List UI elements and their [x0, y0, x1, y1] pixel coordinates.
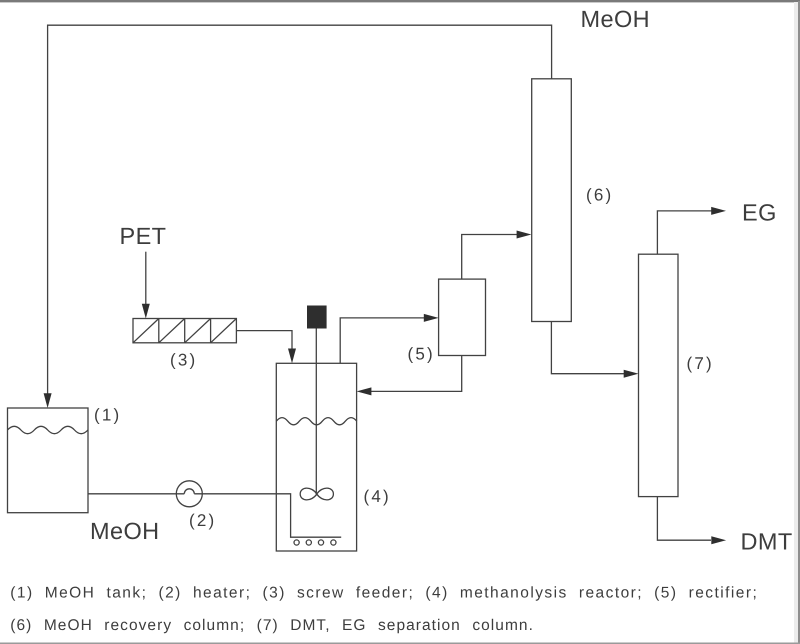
reactor R4 vessel — [276, 363, 356, 551]
svg-text:(6): (6) — [586, 185, 613, 204]
svg-text:(7): (7) — [687, 354, 714, 373]
screw feeder F3 flight 3 — [185, 319, 211, 343]
svg-text:MeOH: MeOH — [581, 6, 651, 32]
wire reactor vapor to rectifier — [340, 318, 424, 363]
arrowhead feeder into reactor top — [288, 349, 296, 364]
wire rectifier top to column 6 — [462, 235, 517, 280]
screw feeder F3 body — [133, 319, 236, 343]
wire column 7 top to EG outlet — [657, 211, 713, 254]
svg-text:PET: PET — [120, 223, 167, 249]
screw feeder F3 flight 1 — [133, 319, 159, 343]
svg-text:(1) MeOH tank; (2) heater; (3): (1) MeOH tank; (2) heater; (3) screw fee… — [10, 585, 758, 602]
heater C2 circle — [176, 481, 202, 507]
svg-text:(2): (2) — [189, 511, 216, 530]
wire column 6 bottom to column 7 — [551, 322, 624, 374]
wire PET feed down to screw feeder — [145, 252, 147, 304]
wire tank outlet through heater to reactor sparger — [88, 493, 184, 495]
wire column 7 bottom to DMT outlet — [657, 497, 711, 541]
svg-text:(5): (5) — [408, 345, 435, 364]
arrowhead return into reactor — [357, 387, 372, 395]
svg-text:EG: EG — [742, 200, 777, 226]
reactor R4 bubble 4 — [331, 540, 336, 545]
arrowhead into column 6 — [517, 231, 532, 239]
arrowhead DMT outlet — [711, 536, 726, 544]
screw feeder F3 flight 4 — [211, 319, 237, 343]
svg-text:(6) MeOH recovery column; (7): (6) MeOH recovery column; (7) DMT, EG se… — [10, 617, 534, 634]
column C7 body — [639, 254, 679, 496]
screw feeder F3 divider 2 — [184, 319, 186, 343]
reactor R4 motor box — [307, 306, 327, 329]
svg-text:MeOH: MeOH — [90, 518, 160, 544]
page top border — [0, 0, 800, 2]
wire screw feeder outlet to reactor top — [236, 331, 292, 349]
reactor R4 bubble 1 — [294, 540, 299, 545]
svg-text:(3): (3) — [170, 351, 197, 370]
wire rectifier bottom return to reactor — [371, 356, 462, 392]
svg-text:(4): (4) — [364, 487, 391, 506]
tank T1 liquid wave — [8, 426, 88, 433]
svg-text:(1): (1) — [94, 406, 121, 425]
arrowhead PET into feeder — [142, 304, 150, 319]
arrowhead into column 7 — [624, 370, 639, 378]
screw feeder F3 divider 3 — [210, 319, 212, 343]
screw feeder F3 divider 1 — [158, 319, 160, 343]
tank T1 MeOH tank — [8, 408, 89, 513]
reactor R4 liquid wave — [276, 418, 357, 425]
page bottom border — [0, 643, 800, 644]
column C6 body — [532, 79, 572, 322]
reactor R4 bubble 2 — [306, 540, 311, 545]
page right border — [794, 2, 798, 644]
svg-text:DMT: DMT — [741, 529, 793, 555]
rectifier R5 body — [439, 279, 486, 355]
wire MeOH recycle: column 6 top to tank 1 — [48, 25, 552, 394]
reactor R4 agitator shaft — [315, 329, 317, 495]
reactor R4 bubble 3 — [318, 540, 323, 545]
arrowhead vapor into rectifier — [424, 314, 439, 322]
screw feeder F3 flight 2 — [159, 319, 185, 343]
arrowhead EG outlet — [711, 207, 726, 215]
reactor R4 impeller — [300, 488, 333, 500]
heater H bump — [184, 489, 194, 494]
arrowhead MeOH into tank 1 — [44, 393, 52, 408]
